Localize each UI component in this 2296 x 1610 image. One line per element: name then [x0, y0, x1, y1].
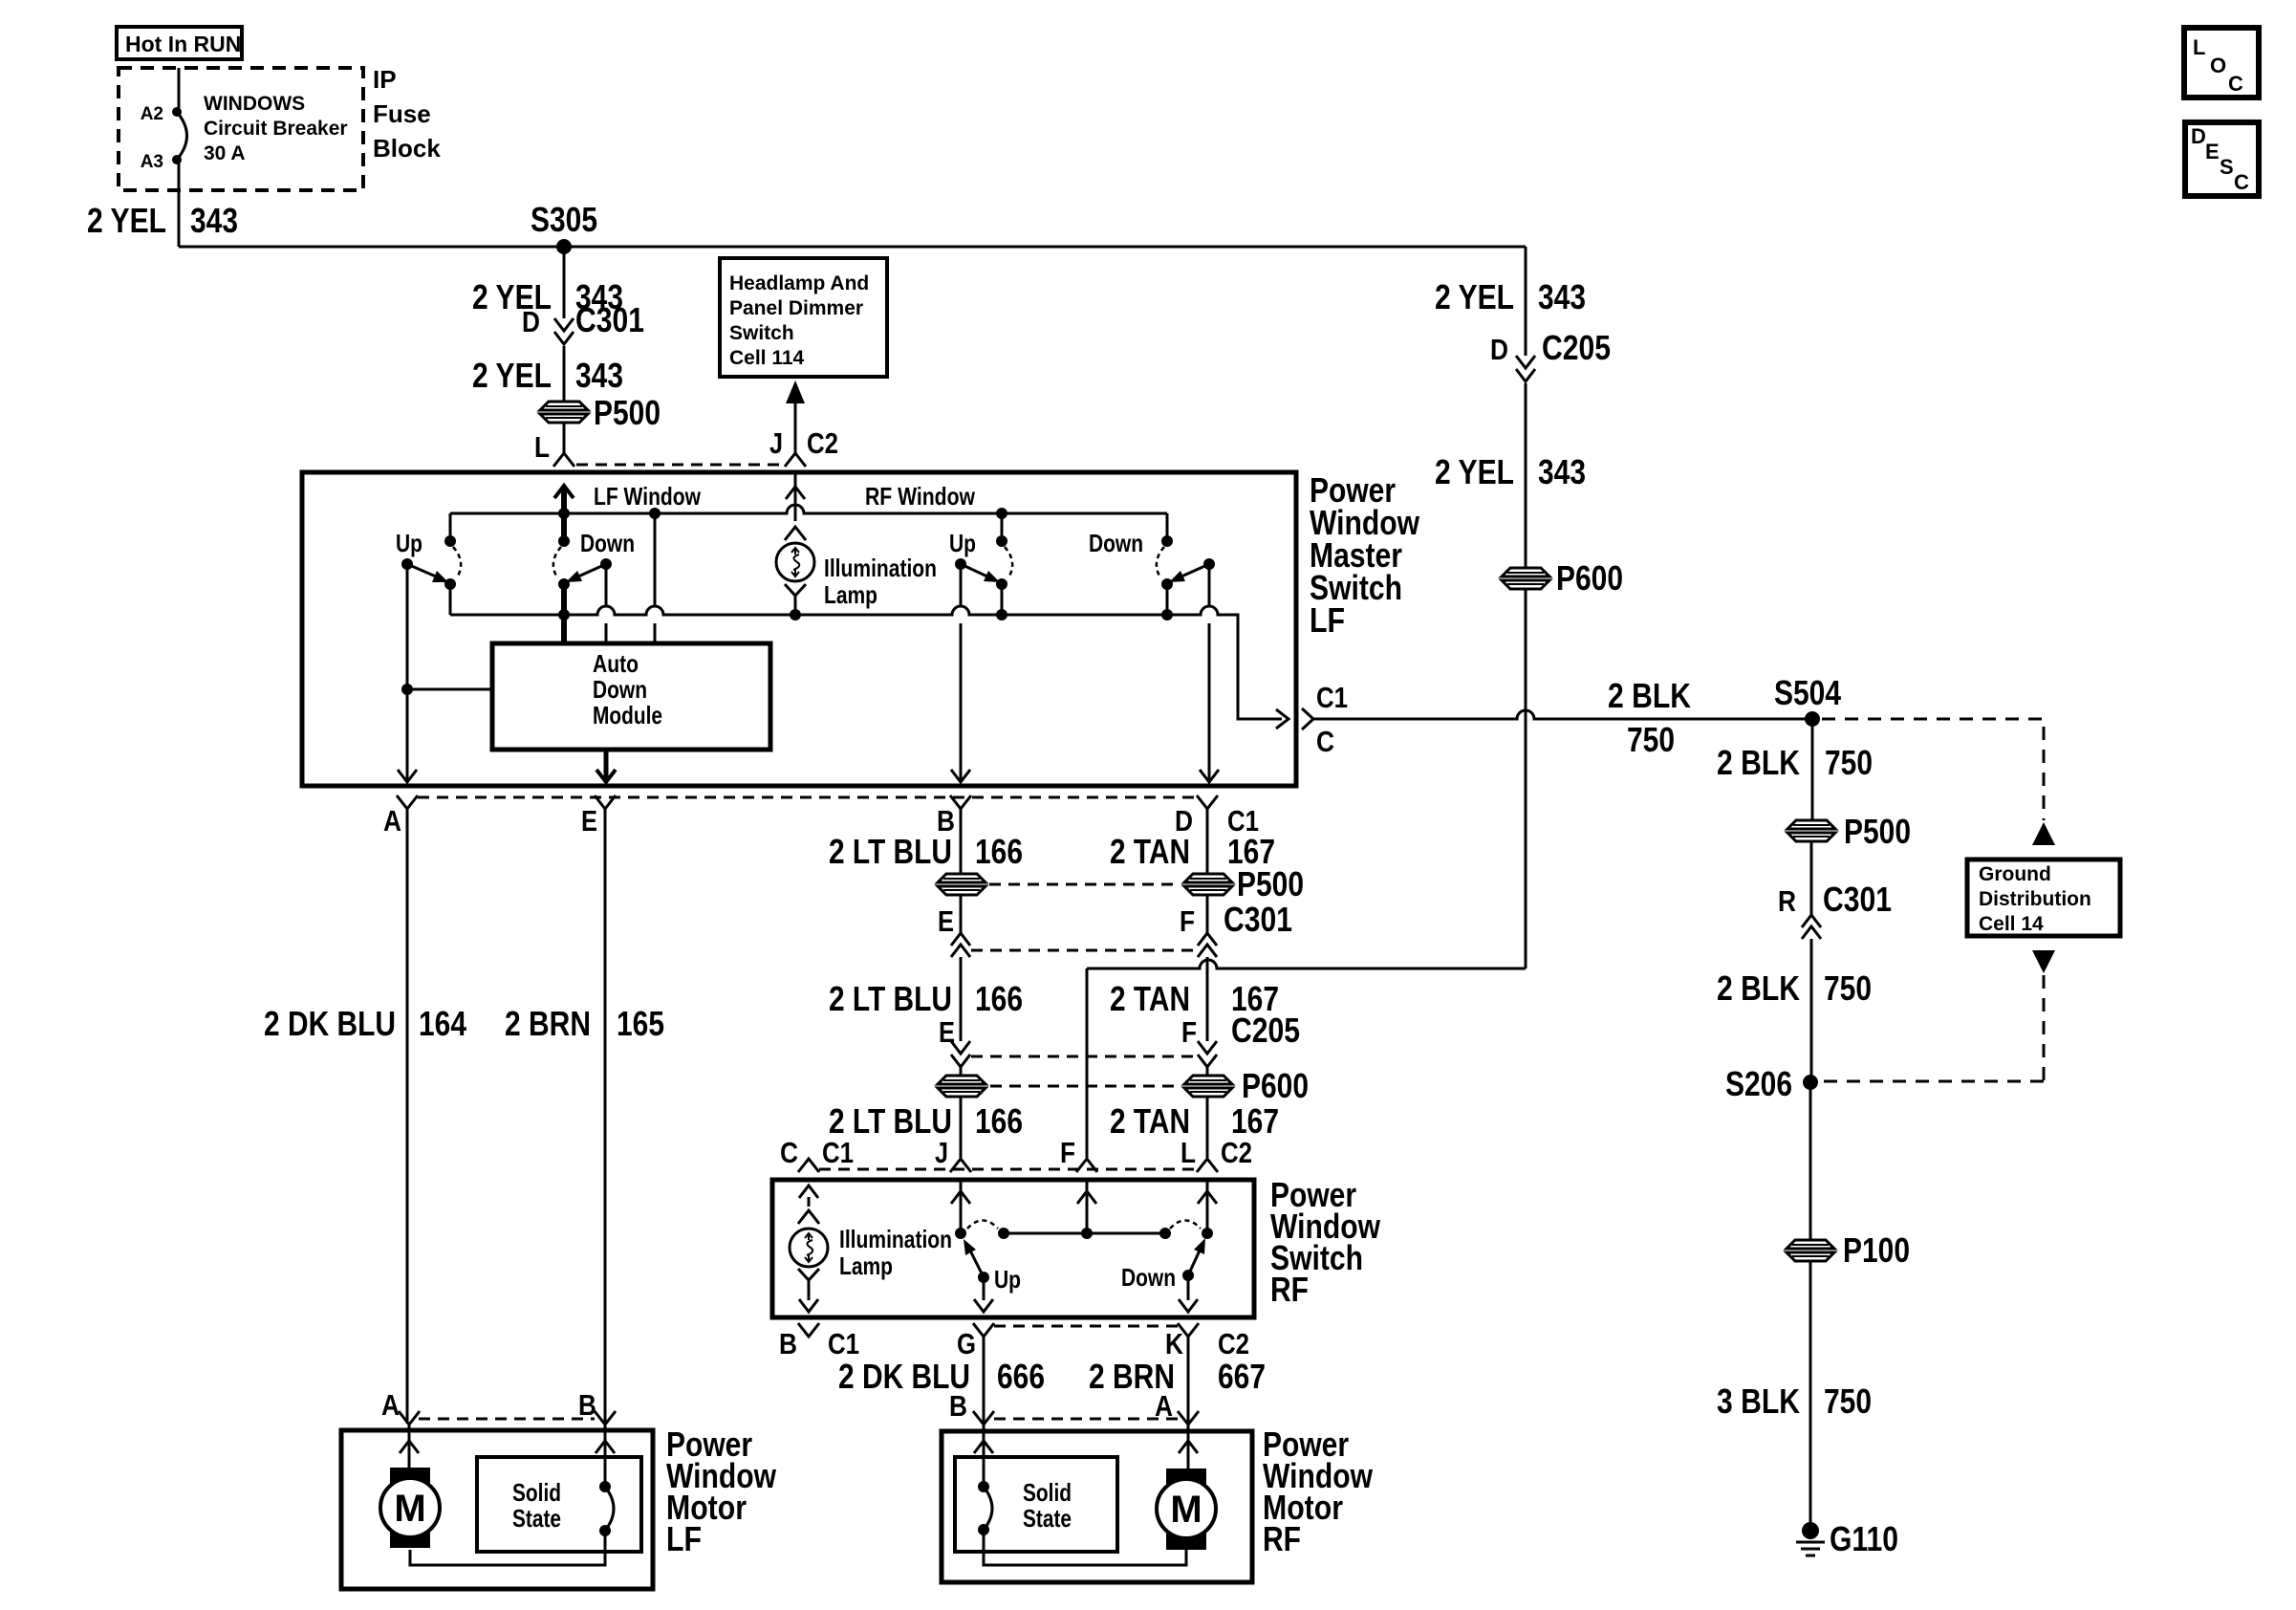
svg-text:343: 343 — [575, 356, 623, 395]
svg-text:Switch: Switch — [729, 322, 794, 344]
connector dashed mate line above RF motor — [994, 1418, 1178, 1421]
svg-text:S: S — [2220, 155, 2234, 179]
wire: horizontal feed from breaker to right branch — [179, 246, 1526, 249]
connector dashed mate line below master switch — [418, 796, 1198, 799]
wire: feed down to RF switch connector C2 pin F — [1086, 968, 1089, 1158]
svg-text:2 LT BLU: 2 LT BLU — [829, 832, 952, 871]
wire: ADM sense line to A output — [401, 684, 413, 695]
wire: pin A into motor — [408, 1425, 411, 1468]
wire: Down common to pin K — [1187, 1275, 1190, 1300]
connector C205 dashed mate line — [971, 1055, 1198, 1058]
svg-text:Cell 114: Cell 114 — [729, 347, 805, 369]
DESC legend box — [2185, 122, 2259, 196]
svg-text:D: D — [2191, 124, 2206, 148]
svg-text:2 TAN: 2 TAN — [1110, 1101, 1190, 1141]
splice S305 — [556, 239, 572, 254]
pin E chevron — [595, 795, 616, 809]
wire: top bus tap down to ADM (hops lower bus) — [654, 513, 657, 643]
svg-text:2 YEL: 2 YEL — [1435, 277, 1514, 316]
pin B chevron (RF motor) — [973, 1411, 994, 1425]
svg-text:E: E — [581, 804, 597, 838]
wire: C301 to S206 — [1810, 939, 1813, 1082]
solid state switch contacts (RF) — [978, 1481, 989, 1492]
pin J chevron — [950, 1159, 971, 1172]
svg-text:167: 167 — [1227, 832, 1275, 871]
svg-text:2 BLK: 2 BLK — [1717, 743, 1800, 782]
svg-text:LF: LF — [1310, 600, 1345, 640]
svg-text:2 BLK: 2 BLK — [1717, 968, 1800, 1008]
svg-text:2 LT BLU: 2 LT BLU — [829, 979, 952, 1018]
wire: P500 to C301 pin F — [1206, 895, 1209, 933]
connector dashed mate line below RF switch — [994, 1325, 1178, 1328]
component box Headlamp And Panel Dimmer Switch Cell 114 — [720, 258, 887, 377]
svg-text:P100: P100 — [1843, 1230, 1910, 1270]
switch RF Down travel arc — [1170, 1221, 1201, 1229]
connector C301 pin D (in-line arrow) — [554, 318, 574, 331]
wire: pin B into solid state (RF) — [983, 1425, 986, 1487]
svg-text:C2: C2 — [1221, 1136, 1252, 1169]
internal lower bus of master switch — [450, 606, 1282, 719]
wire: pin L into switch — [1206, 1180, 1209, 1233]
wire: breaker A3 down to S305 bus — [178, 160, 181, 247]
svg-text:2 LT BLU: 2 LT BLU — [829, 1101, 952, 1141]
switch Up blade — [978, 1272, 989, 1283]
switch RF Down (master) — [1161, 535, 1173, 547]
svg-text:P500: P500 — [1844, 812, 1911, 851]
svg-text:RF: RF — [1270, 1270, 1309, 1309]
svg-text:Solid: Solid — [1023, 1478, 1072, 1507]
component box Power Window Master Switch LF — [302, 472, 1296, 786]
component box Power Window Motor RF — [942, 1431, 1252, 1582]
dashed link S504 to Ground Distribution — [1822, 719, 2044, 820]
splice S504 — [1805, 711, 1820, 727]
component box Auto Down Module — [492, 643, 770, 750]
svg-text:G: G — [957, 1327, 976, 1360]
svg-text:S206: S206 — [1725, 1064, 1792, 1103]
svg-text:C: C — [1316, 725, 1334, 758]
svg-text:165: 165 — [617, 1004, 664, 1043]
motor M (RF) — [1166, 1469, 1206, 1484]
svg-text:RF Window: RF Window — [865, 482, 976, 511]
svg-text:L: L — [2193, 35, 2205, 59]
wire: B down to P500 — [960, 809, 963, 874]
svg-text:J: J — [935, 1136, 948, 1169]
svg-text:A: A — [383, 804, 401, 838]
lamp feed to pin C (arrow) — [808, 1197, 811, 1207]
pin K chevron — [1178, 1323, 1199, 1337]
lamp lower terminal chevron — [798, 1269, 819, 1280]
svg-text:C: C — [2228, 72, 2243, 96]
wire: P100 to ground G110 — [1809, 1261, 1812, 1524]
svg-text:343: 343 — [1538, 277, 1586, 316]
pin C1/C of master switch (output to ground) — [1302, 708, 1313, 729]
pin A chevron (RF motor) — [1178, 1411, 1199, 1425]
switch LF Up — [444, 535, 456, 547]
wire: 2 BLK 750 from master switch to S504 (hops YEL feed) — [1314, 710, 1812, 719]
switch Down blade — [1182, 1270, 1194, 1281]
component box Ground Distribution Cell 14 — [1967, 859, 2120, 936]
solid state module box (RF) — [955, 1457, 1117, 1552]
svg-text:S305: S305 — [531, 200, 597, 239]
svg-text:2 BLK: 2 BLK — [1608, 676, 1691, 715]
svg-text:750: 750 — [1824, 968, 1872, 1008]
connector P500 (ground chain) — [1787, 820, 1835, 829]
wire: P600 down to RF switch feed corner — [1525, 589, 1527, 968]
connector C301 pin R chevrons — [1802, 915, 1821, 927]
connector C205 pin E (arrow and chevron) — [951, 1041, 970, 1054]
illumination lamp feed (from J pin) through box — [794, 474, 797, 521]
svg-text:M: M — [1170, 1489, 1202, 1531]
junction dots on top bus — [558, 508, 570, 519]
LF window feed arrow to pin L — [561, 488, 567, 513]
LOC legend box — [2184, 28, 2259, 98]
svg-text:Headlamp And: Headlamp And — [729, 272, 869, 294]
switch RF Up travel arc — [967, 1221, 998, 1229]
wire: LF Down common down to ADM (hops lower bus) — [605, 564, 608, 643]
svg-text:C301: C301 — [1823, 880, 1892, 919]
wire: P500 to C301 pin R — [1810, 841, 1813, 915]
lamp lower terminal chevron — [785, 584, 806, 596]
svg-text:F: F — [1181, 1015, 1197, 1049]
svg-text:C: C — [2234, 170, 2249, 194]
svg-text:750: 750 — [1824, 1382, 1872, 1421]
wire: P600 to RF switch pin L — [1206, 1097, 1209, 1158]
wire: C205 to connector P600 — [1525, 247, 1527, 356]
svg-text:2 YEL: 2 YEL — [472, 356, 552, 395]
switch RF Up (master) — [1001, 513, 1004, 541]
connector dashed mate line L to J — [576, 464, 781, 467]
svg-text:C1: C1 — [822, 1136, 854, 1169]
svg-text:2 YEL: 2 YEL — [87, 201, 166, 240]
svg-text:C205: C205 — [1231, 1011, 1300, 1050]
wire: P500 to master switch pin L — [563, 423, 566, 453]
wire: output E from ADM — [604, 750, 609, 781]
svg-text:B: B — [949, 1389, 967, 1423]
rocker contact bar — [1004, 1232, 1165, 1235]
wire: output B inside box (hops lower bus) — [960, 564, 963, 781]
wire: Up common to pin G — [983, 1277, 986, 1300]
svg-text:2 YEL: 2 YEL — [1435, 452, 1514, 491]
connector P100 (ground chain) — [1787, 1240, 1834, 1249]
svg-text:L: L — [1180, 1136, 1196, 1169]
switch LF Down — [561, 513, 567, 541]
pin C chevron (RF switch C1) — [798, 1159, 819, 1172]
junction dots on lower bus — [558, 609, 570, 620]
wire: P500 to C301 pin E — [960, 895, 963, 933]
wire: C301 to connector P500 — [563, 346, 566, 402]
connector P600 (in-line) — [1502, 568, 1549, 577]
svg-text:K: K — [1165, 1327, 1184, 1360]
svg-text:A2: A2 — [141, 104, 163, 124]
svg-text:166: 166 — [975, 979, 1023, 1018]
svg-text:Block: Block — [373, 134, 441, 163]
wire: D down to P500 — [1206, 809, 1209, 874]
pin F chevron — [1076, 1159, 1097, 1172]
svg-text:666: 666 — [997, 1357, 1045, 1396]
svg-text:Lamp: Lamp — [839, 1251, 893, 1280]
connector C301 pin F chevrons — [1198, 933, 1217, 946]
svg-text:S504: S504 — [1774, 673, 1841, 712]
wire: S206 down to P100 — [1809, 1082, 1812, 1240]
svg-text:Cell 14: Cell 14 — [1979, 913, 2044, 935]
connector P500 pair (B/D columns) — [938, 874, 986, 882]
connector C205 pin D (in-line arrow) — [1516, 356, 1535, 368]
wire: E to LF motor — [604, 809, 607, 1424]
wire: P600 to RF switch pin J — [960, 1097, 963, 1158]
wire: output A inside box — [406, 564, 409, 781]
svg-text:Down: Down — [580, 529, 635, 557]
solid state switch contacts (LF) — [599, 1481, 611, 1492]
svg-text:A: A — [381, 1388, 400, 1422]
svg-text:C2: C2 — [1218, 1327, 1249, 1360]
internal output arrow to pin C1/C — [1276, 709, 1289, 729]
pin D chevron — [1197, 795, 1218, 809]
svg-text:C1: C1 — [828, 1327, 859, 1360]
splice S206 — [1803, 1075, 1818, 1090]
svg-text:Down: Down — [1121, 1263, 1176, 1292]
svg-text:Down: Down — [1089, 529, 1143, 557]
svg-text:Auto: Auto — [593, 649, 639, 678]
svg-text:O: O — [2210, 54, 2226, 77]
svg-text:2 DK BLU: 2 DK BLU — [264, 1004, 396, 1043]
wire: pin F into switch — [1086, 1180, 1089, 1233]
svg-text:C2: C2 — [807, 426, 838, 460]
component box Power Window Motor LF — [341, 1430, 653, 1589]
pin B chevron — [950, 795, 971, 809]
svg-text:2 TAN: 2 TAN — [1110, 979, 1190, 1018]
wire: pin B into solid state — [604, 1425, 607, 1487]
connector C301 pin E chevrons — [951, 933, 970, 946]
wire: pin J into switch — [960, 1180, 963, 1233]
svg-text:30 A: 30 A — [204, 142, 246, 164]
svg-text:343: 343 — [1538, 452, 1586, 491]
svg-text:E: E — [2205, 140, 2220, 163]
svg-text:A: A — [1155, 1389, 1173, 1423]
svg-text:167: 167 — [1231, 1101, 1279, 1141]
wire: output D inside box (hops lower bus) — [1208, 564, 1211, 781]
svg-text:F: F — [1180, 904, 1195, 938]
svg-text:A3: A3 — [141, 152, 163, 172]
svg-text:Ground: Ground — [1979, 863, 2051, 885]
svg-text:E: E — [938, 904, 954, 938]
illumination lamp (master switch) — [776, 543, 814, 581]
connector dashed mate line above LF motor — [419, 1418, 595, 1421]
svg-text:State: State — [512, 1504, 561, 1533]
svg-text:Distribution: Distribution — [1979, 888, 2091, 910]
svg-text:750: 750 — [1627, 720, 1675, 759]
pin B chevron (stub) — [798, 1323, 819, 1337]
pin L chevron — [1197, 1159, 1218, 1172]
pin J chevron at C2 of master switch — [785, 453, 806, 467]
connector C1/C2 dashed mate line above RF switch — [819, 1168, 1198, 1171]
Hot In RUN label box — [117, 27, 242, 59]
svg-text:WINDOWS: WINDOWS — [204, 93, 305, 115]
wire: C301 F to C205 F — [1206, 957, 1209, 1041]
wire: motor return loop (LF) — [410, 1531, 605, 1565]
connector C301 dashed mate line — [971, 949, 1198, 952]
svg-text:Hot In RUN: Hot In RUN — [125, 32, 241, 56]
wire: feed across to RF window switch pin F (hops D wire) — [1087, 960, 1526, 968]
svg-text:D: D — [522, 305, 540, 338]
wire: A to LF motor — [406, 809, 409, 1424]
svg-text:Down: Down — [593, 675, 647, 704]
wire: J pin up to Headlamp And Panel Dimmer Switch (arrow) — [794, 402, 797, 453]
wire: C205 to P600 — [1206, 1068, 1209, 1076]
svg-text:164: 164 — [419, 1004, 466, 1043]
wire: S305 down to connector C301 pin D — [563, 247, 566, 318]
svg-text:P500: P500 — [594, 393, 661, 432]
svg-text:LF Window: LF Window — [594, 482, 702, 511]
svg-text:Lamp: Lamp — [824, 580, 877, 609]
dashed link Ground Distribution to S206 — [1818, 975, 2044, 1081]
component box Power Window Switch RF — [772, 1180, 1254, 1317]
svg-text:P600: P600 — [1242, 1066, 1309, 1105]
svg-text:667: 667 — [1218, 1357, 1266, 1396]
svg-text:M: M — [394, 1488, 425, 1530]
svg-text:C301: C301 — [575, 300, 644, 339]
svg-text:D: D — [1490, 333, 1508, 366]
motor M (LF) — [390, 1468, 430, 1484]
svg-text:3 BLK: 3 BLK — [1717, 1382, 1800, 1421]
svg-text:B: B — [779, 1327, 797, 1360]
svg-text:166: 166 — [975, 1101, 1023, 1141]
svg-text:Up: Up — [396, 529, 422, 557]
illumination lamp (RF switch) — [790, 1229, 828, 1267]
pin B chevron (LF motor) — [595, 1411, 616, 1425]
svg-text:J: J — [769, 426, 783, 460]
svg-text:P600: P600 — [1556, 558, 1623, 598]
svg-text:Module: Module — [593, 701, 662, 729]
svg-text:RF: RF — [1263, 1519, 1301, 1558]
svg-text:Up: Up — [949, 529, 976, 557]
svg-text:LF: LF — [666, 1519, 702, 1558]
svg-text:C205: C205 — [1542, 328, 1611, 367]
wire: pin A into motor (RF) — [1187, 1425, 1190, 1469]
wire: motor return loop (RF) — [984, 1530, 1186, 1565]
pin G chevron — [973, 1323, 994, 1337]
svg-text:Fuse: Fuse — [373, 99, 431, 128]
svg-text:Circuit Breaker: Circuit Breaker — [204, 118, 348, 140]
svg-text:L: L — [534, 430, 550, 464]
svg-text:Illumination: Illumination — [824, 554, 937, 582]
internal top bus of master switch — [450, 505, 1167, 513]
IP fuse block (dashed outline) — [119, 68, 363, 190]
svg-text:R: R — [1778, 884, 1796, 918]
connector P500 (in-line) — [540, 402, 588, 410]
svg-text:B: B — [578, 1388, 596, 1422]
pin A chevron (LF motor) — [399, 1411, 420, 1425]
svg-text:Solid: Solid — [512, 1478, 561, 1507]
svg-text:166: 166 — [975, 832, 1023, 871]
svg-text:750: 750 — [1825, 743, 1873, 782]
connector C205 pin F (arrow and chevron) — [1198, 1041, 1217, 1054]
pin A chevron — [397, 795, 418, 809]
wire: C205 to P600 — [960, 1068, 963, 1076]
solid state module box (LF) — [477, 1457, 641, 1552]
svg-text:G110: G110 — [1830, 1519, 1898, 1558]
svg-text:F: F — [1060, 1136, 1075, 1169]
svg-text:IP: IP — [373, 65, 397, 94]
svg-text:C1: C1 — [1316, 681, 1348, 714]
svg-text:Up: Up — [994, 1265, 1021, 1294]
svg-text:2 TAN: 2 TAN — [1110, 832, 1190, 871]
wire: S504 down to P500 — [1811, 719, 1814, 820]
svg-text:State: State — [1023, 1504, 1072, 1533]
svg-text:C301: C301 — [1224, 900, 1292, 939]
svg-text:Panel Dimmer: Panel Dimmer — [729, 297, 863, 319]
wire: C301 E to C205 E — [960, 957, 963, 1041]
wire: K to RF motor — [1187, 1337, 1190, 1424]
circuit breaker WINDOWS 30 A — [178, 68, 181, 112]
svg-text:2 BRN: 2 BRN — [505, 1004, 591, 1043]
svg-text:C: C — [780, 1136, 798, 1169]
pin L chevron at C1 of master switch — [553, 453, 574, 467]
ground G110 — [1802, 1522, 1819, 1539]
wire: G to RF motor — [983, 1337, 986, 1424]
svg-text:Illumination: Illumination — [839, 1225, 952, 1253]
svg-text:343: 343 — [190, 201, 238, 240]
connector P600 pair (B/D columns) — [938, 1076, 986, 1084]
